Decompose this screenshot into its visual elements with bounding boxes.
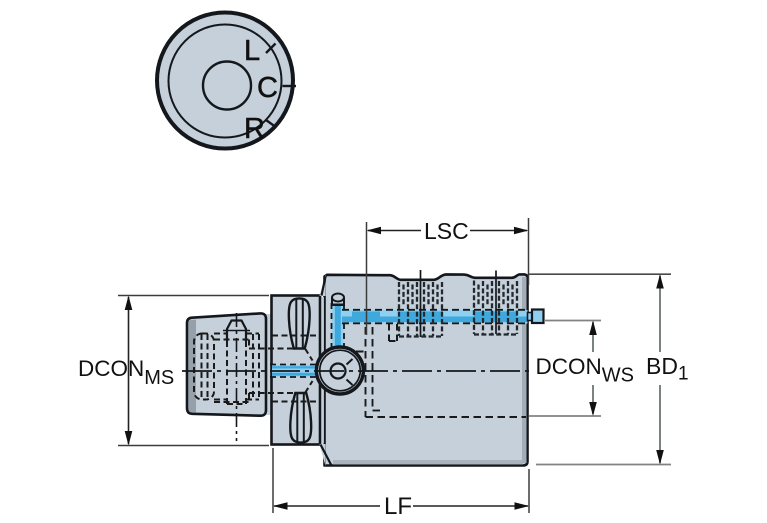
svg-text:L: L [244, 35, 260, 67]
dimension DCON_WS line lower [592, 385, 594, 414]
arch cross tick [223, 330, 250, 332]
dimension LF extension right [528, 469, 530, 513]
dimension DCON_MS line [128, 297, 130, 444]
dimension LSC extension left [366, 222, 368, 335]
screw thread hatch group 2 [474, 281, 517, 335]
svg-text:LSC: LSC [424, 218, 469, 244]
hidden bore dashed lines block and flange [214, 336, 318, 403]
pocket dashes left of group1 [389, 324, 397, 341]
LSC arrow right [514, 227, 529, 235]
dimension DCON_WS line upper [592, 322, 594, 352]
filler between flange and body edge [322, 297, 324, 444]
dimension LF line left [274, 505, 380, 507]
cone line top (flange to body) [322, 277, 326, 296]
body right edge shading [522, 277, 527, 463]
front view: center hole [203, 62, 251, 110]
side view: main cylindrical body [325, 274, 528, 465]
dimension LSC line right [470, 230, 527, 232]
leader line L [266, 44, 276, 54]
ms-block internal dashed thread capsule [194, 334, 259, 401]
dimension DCON_WS extension bottom [529, 415, 601, 417]
dimension BD1 line lower [659, 385, 661, 463]
ms-block vertical centerline (dash-dot) [236, 313, 238, 441]
dimension BD1 extension top [529, 273, 671, 275]
body bottom edge shading [333, 460, 523, 464]
dimension DCON_MS extension bottom [118, 445, 269, 447]
LSC arrow left [367, 227, 382, 235]
svg-text:LF: LF [384, 493, 412, 520]
svg-text:DCONMS: DCONMS [78, 356, 174, 389]
coolant port circle outer [316, 347, 363, 394]
port tick NE [347, 359, 353, 365]
cone line bottom (flange to body) [321, 445, 332, 466]
coolant channel vertical (elbow) [332, 303, 345, 352]
dimension DCON_MS extension top [118, 295, 269, 297]
svg-text:C: C [257, 72, 278, 104]
coolant channel horizontal (flange to port) [270, 365, 317, 378]
screw thread hatch group 1 [399, 282, 442, 337]
upper drive slot lobe [289, 298, 310, 348]
DCON_MS arrow up [125, 296, 133, 311]
BD1 arrow up [656, 274, 664, 288]
dimension LSC line left [368, 230, 421, 232]
leader line C [283, 85, 297, 87]
svg-text:BD1: BD1 [646, 353, 689, 385]
side view: middle flange [272, 296, 321, 445]
screw end neck [528, 313, 533, 321]
plug stub cylinder on chamfer [332, 294, 344, 306]
svg-text:R: R [244, 113, 265, 145]
LF arrow left [273, 502, 288, 510]
dimension BD1 line upper [659, 276, 661, 353]
DCON_WS arrow down [589, 402, 597, 416]
coolant port center hole [331, 364, 346, 379]
side view: machine-side block body [187, 313, 266, 415]
front view: inner ring [169, 25, 282, 138]
ms-block center drill arch [227, 321, 246, 342]
leader line R [266, 120, 276, 127]
dimension BD1 extension bottom [536, 464, 671, 466]
adjustment screw horizontal blue bar [342, 310, 528, 324]
filler between block and flange [264, 314, 274, 415]
screw 2 centerline vertical [495, 271, 497, 335]
cone surface filler bottom [320, 444, 326, 466]
LF arrow right [515, 502, 530, 510]
dimension DCON_WS extension top [544, 320, 601, 322]
leader line R chevron [269, 127, 276, 132]
screw end cap [532, 310, 544, 324]
coolant port circle inner ring [320, 350, 361, 391]
svg-text:DCONWS: DCONWS [536, 354, 634, 387]
hidden bore dashed rectangle in body [344, 327, 526, 417]
screw 1 centerline vertical [420, 270, 422, 337]
DCON_MS arrow down [125, 431, 133, 446]
BD1 arrow down [656, 450, 664, 465]
DCON_WS arrow up [589, 321, 597, 336]
dimension LF extension left [272, 448, 274, 513]
main horizontal centerline (dash-dot) [182, 370, 533, 372]
dimension LSC extension right [528, 218, 530, 285]
ms-block arch dashed sides [227, 341, 246, 404]
front view: outer circle [157, 13, 293, 149]
cone surface filler top [320, 275, 326, 297]
dimension LF line right [413, 505, 528, 507]
port tick SE [347, 380, 353, 386]
lower drive slot lobe [290, 393, 311, 443]
